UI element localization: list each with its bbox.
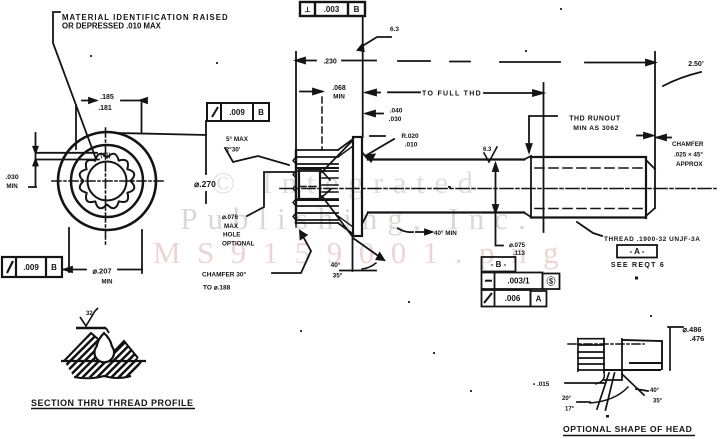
svg-text:R.020: R.020 xyxy=(401,133,419,140)
svg-text:SEE REQT 6: SEE REQT 6 xyxy=(611,262,665,269)
svg-text:B: B xyxy=(51,263,57,272)
svg-text:⟂: ⟂ xyxy=(304,5,311,14)
svg-text:.030: .030 xyxy=(5,174,18,181)
svg-text:35°: 35° xyxy=(333,272,343,280)
svg-text:OPTIONAL SHAPE OF HEAD: OPTIONAL SHAPE OF HEAD xyxy=(563,424,692,434)
svg-text:.230: .230 xyxy=(323,59,337,66)
svg-text:6.3: 6.3 xyxy=(390,26,399,33)
svg-text:(11): (11) xyxy=(100,153,110,159)
svg-text:OR DEPRESSED .010 MAX: OR DEPRESSED .010 MAX xyxy=(62,22,162,31)
svg-text:B: B xyxy=(354,5,360,14)
svg-text:2.50’: 2.50’ xyxy=(688,61,704,68)
svg-text:.181: .181 xyxy=(98,105,112,112)
svg-text:THD RUNOUT: THD RUNOUT xyxy=(569,116,621,123)
svg-text:.040: .040 xyxy=(390,108,403,115)
svg-text:32: 32 xyxy=(86,311,93,317)
svg-text:⌀.075: ⌀.075 xyxy=(509,242,526,249)
svg-text:MAX: MAX xyxy=(224,223,239,230)
svg-text:MIN: MIN xyxy=(6,183,18,190)
svg-text:HOLE: HOLE xyxy=(223,232,241,239)
svg-text:THREAD .1900-32 UNJF-3A: THREAD .1900-32 UNJF-3A xyxy=(604,236,700,243)
svg-text:.025 × 45°: .025 × 45° xyxy=(674,151,703,159)
svg-text:SECTION THRU THREAD PROFILE: SECTION THRU THREAD PROFILE xyxy=(31,398,194,408)
svg-text:MIN AS 3062: MIN AS 3062 xyxy=(573,125,619,132)
svg-text:TO FULL THD: TO FULL THD xyxy=(422,91,482,98)
svg-text:.068: .068 xyxy=(332,85,346,92)
svg-text:MIN: MIN xyxy=(102,280,113,286)
svg-text:⌀.270: ⌀.270 xyxy=(194,179,216,189)
svg-text:.003: .003 xyxy=(324,5,340,14)
svg-text:.009: .009 xyxy=(229,108,245,117)
svg-text:.030: .030 xyxy=(389,116,402,123)
svg-text:© Integrated: © Integrated xyxy=(212,165,483,200)
svg-text:B: B xyxy=(258,108,264,117)
svg-text:.113: .113 xyxy=(513,250,525,257)
svg-text:6.3: 6.3 xyxy=(483,147,492,153)
svg-text:40° MIN: 40° MIN xyxy=(434,229,457,237)
svg-text:MS9159001.png: MS9159001.png xyxy=(153,235,575,270)
svg-text:CHAMFER: CHAMFER xyxy=(672,141,704,148)
svg-text:17°: 17° xyxy=(565,407,575,413)
svg-text:.185: .185 xyxy=(100,94,114,101)
svg-text:TO ⌀.188: TO ⌀.188 xyxy=(203,285,231,292)
svg-text:- A -: - A - xyxy=(630,247,645,256)
svg-text:.003/1: .003/1 xyxy=(507,277,530,286)
svg-text:MIN: MIN xyxy=(333,94,345,101)
svg-text:35°: 35° xyxy=(653,399,663,405)
svg-text:• .015: • .015 xyxy=(533,381,550,388)
svg-text:.009: .009 xyxy=(23,263,39,272)
svg-text:5° MAX: 5° MAX xyxy=(226,135,249,143)
svg-text:40°: 40° xyxy=(331,261,341,269)
svg-text:⌀.486: ⌀.486 xyxy=(682,325,701,334)
svg-text:.006: .006 xyxy=(505,294,521,303)
svg-text:- B -: - B - xyxy=(491,260,507,269)
svg-text:OPTIONAL: OPTIONAL xyxy=(222,241,255,248)
svg-text:Ⓢ: Ⓢ xyxy=(546,276,555,287)
svg-text:A: A xyxy=(536,295,542,304)
svg-text:.476: .476 xyxy=(690,334,705,343)
svg-text:APPROX: APPROX xyxy=(676,161,703,168)
svg-text:40°: 40° xyxy=(650,388,660,394)
svg-text:⌀.207: ⌀.207 xyxy=(92,267,111,276)
svg-text:.010: .010 xyxy=(405,142,418,149)
svg-text:⌀.076: ⌀.076 xyxy=(222,214,239,221)
svg-text:CHAMFER 30°: CHAMFER 30° xyxy=(202,271,247,279)
svg-text:2°30': 2°30' xyxy=(226,146,241,154)
svg-text:20°: 20° xyxy=(562,396,572,402)
